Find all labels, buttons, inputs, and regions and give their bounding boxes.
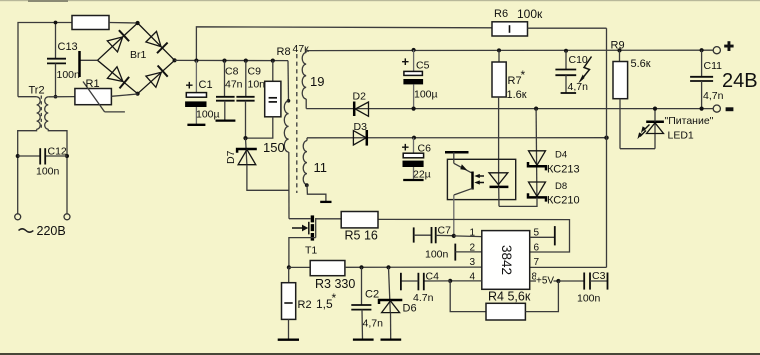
svg-text:C13: C13 <box>58 41 78 53</box>
svg-text:2: 2 <box>470 243 476 254</box>
svg-text:C10: C10 <box>569 54 588 66</box>
svg-text:+: + <box>186 78 194 93</box>
svg-text:C4: C4 <box>426 271 440 283</box>
node D3 C6 <box>412 136 416 140</box>
capacitor C5 electrolytic <box>403 48 423 111</box>
capacitor C9 <box>236 61 254 139</box>
svg-text:R1: R1 <box>86 78 100 90</box>
resistor R2 <box>282 267 296 339</box>
svg-text:R9: R9 <box>611 40 625 52</box>
transistor T1 mosfet <box>289 215 316 267</box>
resistor R3 <box>289 261 482 276</box>
svg-text:4,7n: 4,7n <box>703 90 724 102</box>
svg-text:+: + <box>402 54 410 69</box>
svg-text:+: + <box>402 140 410 155</box>
IC U1 3842 <box>482 231 530 290</box>
transformer T secondary 19 <box>302 51 306 109</box>
node bridge bottom <box>136 92 140 96</box>
svg-text:C12: C12 <box>48 146 67 158</box>
svg-text:4.7n: 4.7n <box>413 292 434 304</box>
wire minus rail D2 line <box>306 108 717 110</box>
wire plus 24V rail <box>306 49 717 51</box>
svg-text:T1: T1 <box>305 245 317 257</box>
svg-text:R5 16: R5 16 <box>345 229 378 243</box>
optocoupler U1 box <box>447 159 515 199</box>
svg-text:1,5: 1,5 <box>316 297 333 311</box>
svg-text:4,7n: 4,7n <box>363 318 384 330</box>
svg-text:24В: 24В <box>722 70 758 92</box>
wire mains left vertical <box>18 23 72 97</box>
node C9 D7 R8 <box>243 136 247 140</box>
label plus sign <box>724 41 733 51</box>
svg-text:5.6к: 5.6к <box>631 58 651 70</box>
svg-text:КС210: КС210 <box>547 195 580 207</box>
optocoupler light arrows <box>474 174 484 185</box>
ground C6 <box>403 179 423 181</box>
wire HV riser to R6 <box>196 27 492 61</box>
wire Vcc rail D3 line <box>307 137 607 139</box>
svg-text:*: * <box>521 68 526 82</box>
wire pin8 plus5V <box>530 275 561 284</box>
svg-text:D2: D2 <box>353 91 367 103</box>
ground C1 <box>187 124 205 126</box>
zener D8 KC210 <box>499 182 546 206</box>
node pin1 opto emitter <box>452 234 456 238</box>
wire pin5 with end bar <box>530 226 555 245</box>
svg-text:100к: 100к <box>517 7 543 21</box>
svg-text:D6: D6 <box>403 303 417 315</box>
label ~220V <box>19 224 66 238</box>
svg-text:C3: C3 <box>592 270 606 282</box>
svg-text:Tr2: Tr2 <box>29 85 45 97</box>
svg-text:R8: R8 <box>277 46 291 58</box>
capacitor C1 electrolytic <box>185 61 206 125</box>
node C1 <box>194 59 198 63</box>
svg-text:C5: C5 <box>416 60 430 72</box>
svg-text:100n: 100n <box>36 166 60 178</box>
svg-text:100n: 100n <box>425 249 449 261</box>
svg-text:6: 6 <box>534 243 540 254</box>
svg-text:3842: 3842 <box>499 245 514 275</box>
wire fuse to bridge top <box>109 22 138 25</box>
wire pin4 <box>448 279 482 283</box>
bridge diode upper-right <box>146 31 168 53</box>
top scan border <box>0 0 760 2</box>
terminal plus output <box>713 47 720 54</box>
svg-text:D8: D8 <box>555 181 567 192</box>
capacitor C7 <box>414 227 454 243</box>
zener D6 <box>379 265 402 339</box>
svg-text:C6: C6 <box>418 143 432 155</box>
svg-text:3: 3 <box>470 257 476 268</box>
resistor R8 <box>246 61 281 139</box>
node bridge right <box>173 58 177 62</box>
terminal bar at bridge left <box>78 51 81 77</box>
svg-text:R4 5,6к: R4 5,6к <box>488 290 531 304</box>
bridge diode upper-left <box>107 30 129 52</box>
node bridge top <box>136 21 140 25</box>
svg-text:D4: D4 <box>555 150 567 161</box>
transformer core dashed <box>296 54 298 193</box>
capacitor C3 <box>558 273 607 290</box>
svg-text:1.6к: 1.6к <box>507 89 527 101</box>
capacitor C6 electrolytic <box>403 138 424 180</box>
zener D4 KC213 <box>528 151 546 171</box>
capacitor C12 <box>16 148 69 164</box>
svg-text:Br1: Br1 <box>130 49 147 61</box>
wire R6 down to Vcc node and pin7 <box>530 28 607 267</box>
svg-text:C9: C9 <box>248 66 262 78</box>
capacitor C8 <box>216 61 235 121</box>
svg-text:D3: D3 <box>354 121 368 133</box>
node R8 top <box>271 59 275 63</box>
svg-text:C11: C11 <box>704 60 723 72</box>
ground C2 <box>353 338 374 340</box>
svg-text:100n: 100n <box>577 293 601 305</box>
capacitor C10 trimmer <box>555 49 591 93</box>
LED1 <box>620 107 664 149</box>
node rail end <box>604 136 608 140</box>
wire pin1 <box>454 235 482 238</box>
svg-text:150: 150 <box>263 140 285 155</box>
resistor R1 varistor <box>48 82 137 112</box>
svg-text:100µ: 100µ <box>196 109 220 121</box>
transformer T secondary 11 <box>303 138 326 202</box>
resistor R9 <box>613 48 628 148</box>
wire pin2 with end bar <box>455 244 482 261</box>
svg-text:19: 19 <box>310 74 324 89</box>
svg-text:"Питание": "Питание" <box>665 115 714 127</box>
svg-text:C8: C8 <box>225 66 239 78</box>
svg-text:100µ: 100µ <box>414 89 438 101</box>
capacitor C2 <box>351 265 371 339</box>
svg-text:C2: C2 <box>365 289 379 301</box>
node C8 <box>222 59 226 63</box>
fuse <box>72 16 109 30</box>
svg-text:*: * <box>332 291 337 305</box>
svg-text:LED1: LED1 <box>668 130 694 142</box>
svg-text:R7: R7 <box>508 75 522 87</box>
svg-text:1: 1 <box>470 228 476 239</box>
optocoupler LED <box>489 173 508 207</box>
diode D3 <box>353 130 366 146</box>
ground R2 <box>278 339 299 341</box>
svg-text:R3 330: R3 330 <box>315 277 355 291</box>
svg-text:7: 7 <box>534 257 540 268</box>
zener D7 <box>237 138 289 190</box>
transformer Tr2 <box>18 85 67 214</box>
capacitor C11 <box>690 48 713 111</box>
svg-text:C1: C1 <box>199 79 213 91</box>
diode D2 <box>354 102 368 117</box>
capacitor C4 <box>401 273 450 291</box>
svg-text:47к: 47к <box>293 43 310 55</box>
terminal circle L <box>15 214 21 220</box>
ground C8 <box>216 119 236 121</box>
svg-text:R2: R2 <box>298 299 312 311</box>
label minus sign <box>726 107 734 111</box>
svg-text:47n: 47n <box>225 79 243 91</box>
svg-text:КС213: КС213 <box>547 164 580 176</box>
ground D6 <box>381 338 402 340</box>
svg-text:22µ: 22µ <box>413 169 431 181</box>
bridge diode lower-left <box>107 67 129 89</box>
capacitor C13 <box>47 21 66 99</box>
svg-text:220В: 220В <box>37 224 66 238</box>
node source R2 R3 <box>287 265 291 269</box>
gate drive line R5 to pin6 <box>378 219 570 252</box>
svg-text:+5V: +5V <box>536 276 554 287</box>
terminal circle N <box>64 214 70 220</box>
svg-text:4,7n: 4,7n <box>568 81 589 93</box>
wire bridge left corner to bar <box>80 59 98 61</box>
bridge Br1 frame <box>98 23 175 94</box>
resistor R7 <box>492 48 506 187</box>
ground winding 11 <box>320 201 331 203</box>
transformer T primary winding 150 <box>284 61 290 219</box>
resistor R4 <box>450 281 558 320</box>
bridge diode lower-right <box>146 66 168 88</box>
svg-text:11: 11 <box>314 160 328 175</box>
zener chain wire from minus rail <box>534 107 538 198</box>
resistor R5 <box>316 212 378 228</box>
svg-text:D7: D7 <box>225 150 237 164</box>
svg-text:C7: C7 <box>438 225 452 237</box>
bottom scan border <box>0 353 760 355</box>
resistor R6 <box>492 22 607 36</box>
svg-text:100n: 100n <box>57 69 81 81</box>
optocoupler phototransistor <box>445 152 473 236</box>
wire HV main line <box>175 59 288 61</box>
terminal minus output <box>713 105 720 112</box>
node C9 <box>244 59 248 63</box>
svg-text:10n: 10n <box>248 79 266 91</box>
svg-text:R6: R6 <box>494 8 508 20</box>
